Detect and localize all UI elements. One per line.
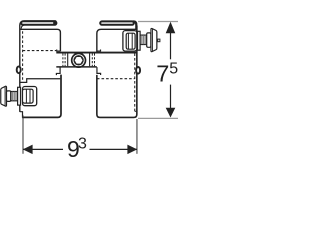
arrow up of 7⁵ [166,22,176,33]
dimension line 9³ [23,148,137,150]
bar end edges (solid) [68,53,90,66]
left washer [18,87,21,105]
left clip (rail tab) [21,21,56,28]
arrow down of 7⁵ [166,108,176,118]
right washer [138,31,141,50]
bolt hex socket [74,57,83,65]
left block outer profile (left edge folding into clip top) [20,21,56,112]
left block hidden left edge (dashed) [22,31,24,80]
right block upper ear [97,50,101,52]
left block hidden channel edge (dashed) [23,50,57,52]
right knob nub [158,39,160,42]
left block upper ear [57,50,61,52]
svg-text:7: 7 [156,61,169,87]
dimension line 7⁵ [170,31,172,109]
right block hidden right edge (dashed) [134,53,136,111]
right knob hub [147,33,151,47]
left knob disc [1,86,7,106]
right block hidden channel edge (dashed) [97,78,135,80]
left block lower right edge and bottom [22,75,61,118]
bolt inner circle [74,56,83,65]
left clip end cap [53,21,56,24]
extension line top (for 7⁵, grey) [138,20,178,22]
left block lower hook [56,67,60,75]
right nut backing plate [123,31,137,51]
extension line left (for 9³) [22,115,24,153]
right block right edge and bottom [97,26,137,118]
connecting bar bottom edge [56,66,97,68]
extension line right (for 9³) [136,119,138,154]
dimension text 9³ [67,136,87,162]
right block lower hook [97,67,101,75]
svg-text:3: 3 [78,136,87,153]
left block internal slot line [20,79,61,83]
arrow left of 9³ [23,145,33,155]
left hex nut [23,89,34,103]
right hex nut [126,33,135,49]
bolt outer circle [72,53,86,67]
left nut backing plate [23,87,37,106]
left block foot step [20,112,23,118]
left pivot nub (ellipse on left edge) [17,66,21,73]
connecting bar top edge [56,52,137,54]
dimension text 7⁵ [156,60,178,86]
left block top edge and upper right edge [20,29,60,51]
bar hidden edges (dashed) [63,53,95,66]
left knob hub [7,91,11,102]
right pivot nub (ellipse on right edge) [136,67,140,74]
right block top edge and upper left edge [97,29,136,52]
left screw shaft [11,92,18,101]
svg-text:5: 5 [169,60,178,77]
right clip (rail tab) [100,20,137,29]
extension line bottom (for 7⁵, grey) [138,117,178,119]
arrow right of 9³ [127,145,137,155]
right screw shaft [140,35,147,44]
right knob disc [151,28,157,51]
